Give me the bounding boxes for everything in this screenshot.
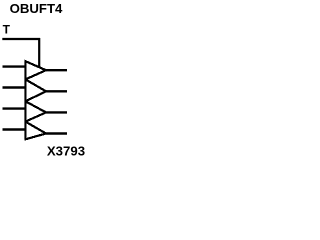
wire input 1 — [3, 65, 26, 67]
wire input 4 — [3, 128, 26, 130]
wire output 1 — [46, 69, 67, 71]
buffer triangle 3 — [25, 101, 46, 121]
svg-text:T: T — [3, 23, 11, 37]
wire T horizontal — [2, 38, 40, 40]
svg-text:OBUFT4: OBUFT4 — [10, 1, 63, 16]
wire output 4 — [46, 132, 67, 134]
wire left-edge bus — [24, 61, 26, 139]
wire output 3 — [46, 111, 67, 113]
wire input 3 — [3, 107, 26, 109]
wire T vertical net — [38, 38, 40, 68]
wire output 2 — [46, 90, 67, 92]
buffer triangle 1 — [25, 61, 46, 79]
buffer triangle 4 — [25, 122, 46, 140]
background — [0, 0, 87, 165]
wire input 2 — [3, 86, 26, 88]
svg-text:X3793: X3793 — [47, 144, 85, 159]
buffer triangle 2 — [25, 79, 46, 101]
